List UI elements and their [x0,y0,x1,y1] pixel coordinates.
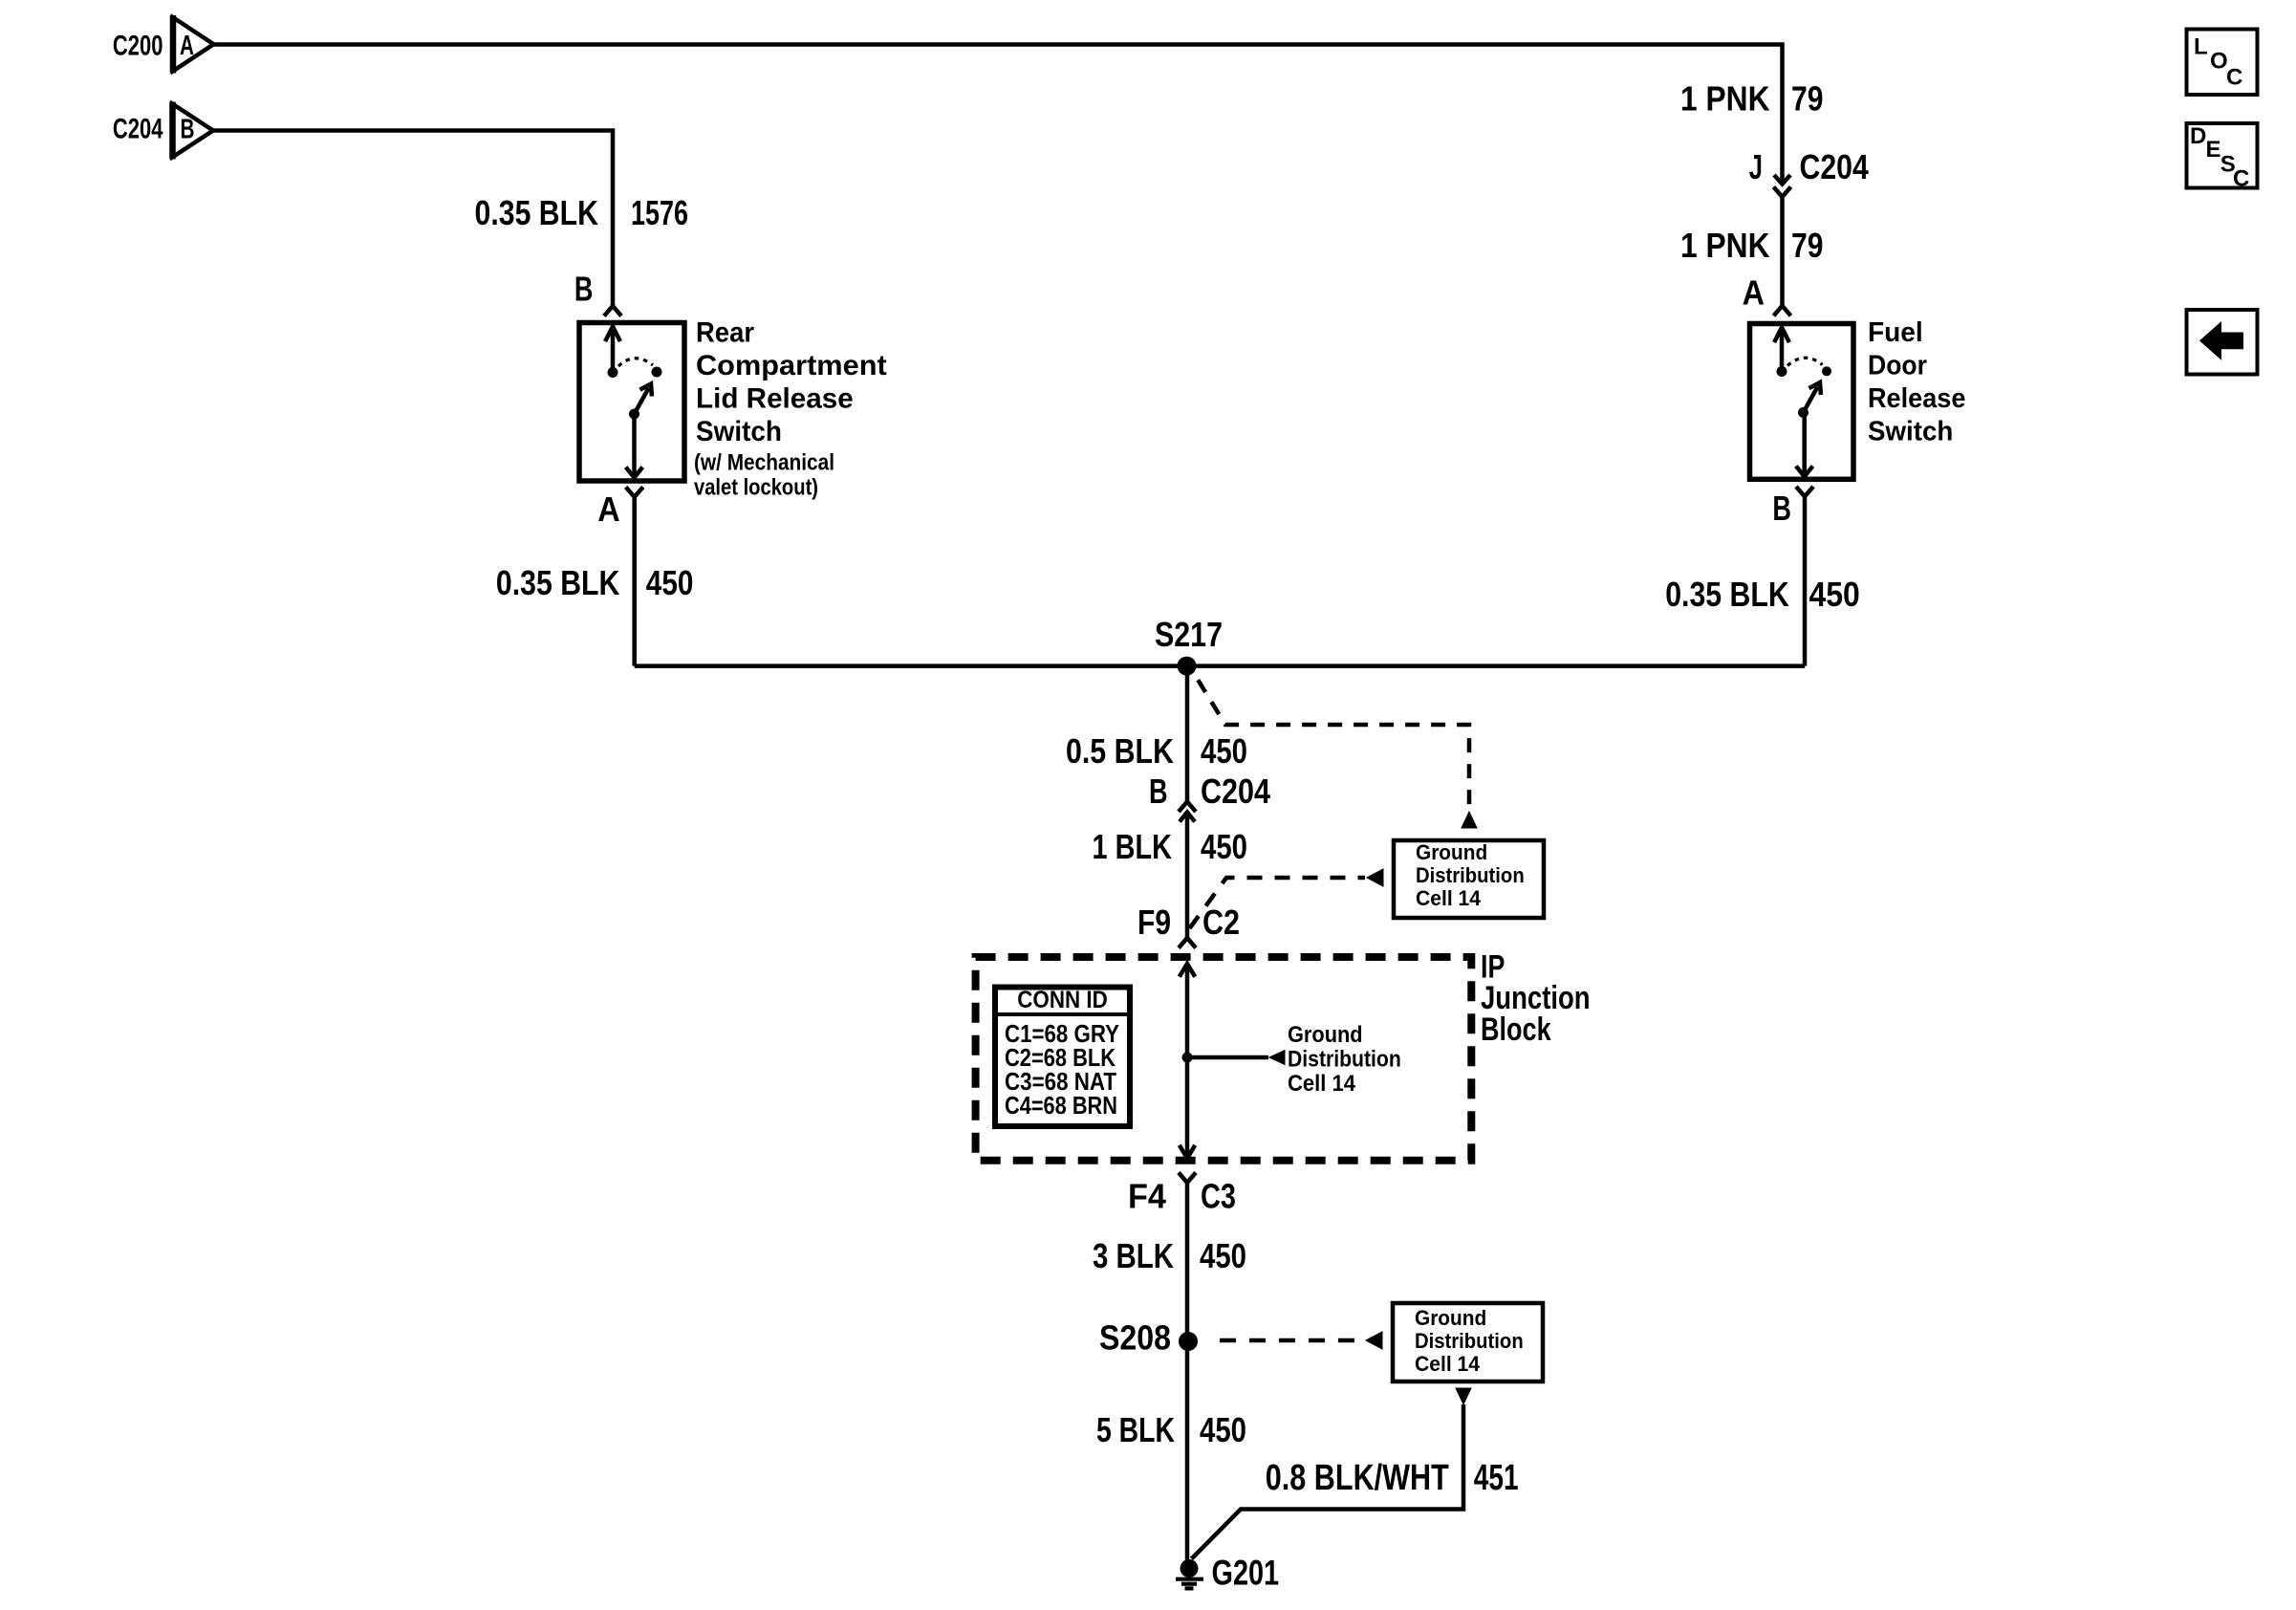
switch S2 lower arrow [1802,413,1807,477]
svg-text:B: B [1772,489,1791,528]
svg-text:A: A [180,31,194,61]
ground ref triangle left 2 [1366,1332,1382,1349]
back arrow [2199,321,2243,360]
svg-text:450: 450 [1201,827,1247,866]
svg-text:5 BLK: 5 BLK [1096,1410,1175,1449]
switch S2 pivot dot [1798,407,1809,418]
terminal B2 chevron [1796,487,1813,497]
splice S208 dot [1179,1332,1198,1351]
wire inside IP upper [1185,964,1190,1057]
svg-text:1576: 1576 [631,193,688,232]
CONN ID box [995,988,1130,1127]
connector C204 triangle [173,104,214,158]
svg-text:0.8 BLK/WHT: 0.8 BLK/WHT [1266,1458,1449,1498]
svg-text:Release: Release [1868,383,1965,414]
svg-text:D: D [2190,123,2206,149]
svg-text:B: B [574,270,594,309]
svg-text:450: 450 [646,563,694,602]
back arrow box [2187,310,2258,375]
svg-text:(w/ Mechanical: (w/ Mechanical [694,450,834,476]
wire inside IP lower [1185,1057,1190,1159]
svg-text:Cell 14: Cell 14 [1416,886,1482,910]
switch S1 movable arm [635,388,649,414]
ground ref triangle left 1 [1367,869,1383,886]
terminal B chevron [604,306,621,316]
svg-text:Distribution: Distribution [1415,1329,1524,1353]
connector C204-B chevron [1179,802,1196,813]
dashed ref from S217 [1192,670,1469,809]
svg-text:450: 450 [1200,1236,1246,1275]
DESC box [2187,123,2258,188]
switch S1 lower arrow [632,414,637,478]
svg-text:O: O [2210,49,2228,75]
switch S2 movable arm [1804,386,1818,412]
svg-text:CONN ID: CONN ID [1017,987,1108,1013]
IP junction block dashed box [976,957,1472,1161]
svg-text:C3: C3 [1201,1177,1236,1216]
connector C204-J arrowhead [1774,175,1790,185]
svg-text:0.5 BLK: 0.5 BLK [1066,731,1174,771]
svg-text:C: C [2226,65,2242,91]
dashed ref from C2 [1190,878,1366,928]
splice S217 dot [1178,657,1197,676]
switch S1 upper contact arrow [611,327,616,373]
svg-text:E: E [2206,137,2221,163]
svg-text:Ground: Ground [1415,1306,1486,1330]
ground G201 symbol [1176,1577,1203,1581]
svg-text:F9: F9 [1137,903,1171,942]
svg-text:0.35 BLK: 0.35 BLK [475,193,599,232]
IP ground ref triangle [1269,1051,1285,1065]
svg-text:Door: Door [1868,351,1927,381]
svg-text:Switch: Switch [1868,417,1953,447]
svg-text:450: 450 [1809,575,1860,614]
svg-text:450: 450 [1200,1410,1246,1449]
svg-text:Lid Release: Lid Release [696,383,854,415]
terminal A chevron [626,487,643,497]
switch S2 upper contact arrow [1780,328,1785,372]
svg-text:Cell 14: Cell 14 [1288,1071,1356,1097]
svg-text:C: C [2233,166,2249,192]
svg-text:1 PNK: 1 PNK [1680,226,1770,265]
svg-text:A: A [597,490,619,529]
svg-text:G201: G201 [1212,1554,1280,1593]
svg-text:S217: S217 [1155,615,1223,654]
connector C2 chevron [1179,938,1196,948]
svg-text:C204: C204 [1800,147,1869,186]
wire S217 horizontal [635,664,1805,668]
wire C200-A [214,45,1783,185]
svg-text:C200: C200 [113,31,163,62]
svg-text:C2: C2 [1202,903,1240,942]
IP ground ref line [1187,1055,1268,1060]
wire C204-J to S2 [1780,197,1785,306]
connector C204-J chevron [1774,187,1791,198]
LOC box [2187,30,2258,96]
svg-text:Rear: Rear [696,317,754,349]
svg-text:valet lockout): valet lockout) [694,475,818,501]
wire S2-B to S217 [1803,496,1808,665]
svg-text:451: 451 [1474,1458,1519,1498]
svg-text:Ground: Ground [1416,840,1487,864]
switch S1 pivot dot [629,409,639,420]
svg-text:L: L [2194,34,2208,60]
connector C204-B arrowhead [1180,813,1195,822]
svg-text:1 PNK: 1 PNK [1680,79,1770,119]
svg-text:450: 450 [1201,731,1247,771]
svg-text:3 BLK: 3 BLK [1093,1236,1174,1275]
svg-text:F4: F4 [1128,1177,1166,1216]
svg-text:B: B [1149,772,1168,811]
connector C200 triangle [173,17,214,71]
wire C204-B to C2 [1185,813,1190,939]
svg-text:A: A [1743,273,1765,313]
svg-text:Ground: Ground [1288,1022,1363,1048]
terminal A2 chevron [1774,306,1791,316]
wire C3 to S208 [1185,1183,1190,1341]
svg-text:Distribution: Distribution [1288,1047,1401,1073]
wire C204-B [213,131,613,307]
switch S2 upper contact dot [1777,366,1787,377]
CONN ID header line [998,1012,1127,1016]
svg-text:Cell 14: Cell 14 [1415,1352,1481,1376]
wire S217 to C204-B [1185,666,1190,802]
ground distribution box 1 [1394,840,1544,918]
ground ref triangle down [1456,1388,1471,1404]
svg-text:Switch: Switch [696,416,782,447]
wire 0.8 BLK/WHT [1192,1404,1464,1559]
svg-text:B: B [181,114,195,144]
ground ref triangle up [1462,812,1477,828]
svg-text:1 BLK: 1 BLK [1093,827,1173,866]
switch S1 right contact dot [652,367,662,378]
svg-text:Block: Block [1481,1012,1551,1048]
svg-text:0.35 BLK: 0.35 BLK [1665,575,1789,614]
svg-text:0.35 BLK: 0.35 BLK [496,563,620,602]
rear compartment lid release switch box [579,323,684,482]
svg-text:C204: C204 [113,114,163,145]
svg-text:Fuel: Fuel [1868,317,1923,348]
IP junction dot [1182,1053,1193,1063]
svg-text:C4=68 BRN: C4=68 BRN [1005,1091,1117,1120]
dashed ref from S208 [1220,1338,1363,1343]
svg-text:Compartment: Compartment [696,350,887,381]
ground G201 dot [1180,1559,1199,1577]
switch S1 travel arc [618,359,653,366]
ground distribution box 2 [1393,1303,1543,1382]
svg-text:79: 79 [1791,226,1824,265]
wire S208 to G201 [1185,1341,1190,1571]
svg-text:79: 79 [1791,79,1824,119]
wire S1-A to S217 [632,497,637,666]
switch S2 right contact dot [1822,366,1831,376]
svg-text:S208: S208 [1099,1318,1171,1358]
switch S1 upper contact dot [608,367,618,378]
switch S2 travel arc [1787,358,1823,365]
svg-text:Distribution: Distribution [1416,863,1525,887]
svg-text:J: J [1749,147,1763,186]
svg-text:C204: C204 [1201,772,1270,811]
fuel door release switch box [1750,324,1854,480]
connector C3 chevron [1179,1173,1196,1184]
